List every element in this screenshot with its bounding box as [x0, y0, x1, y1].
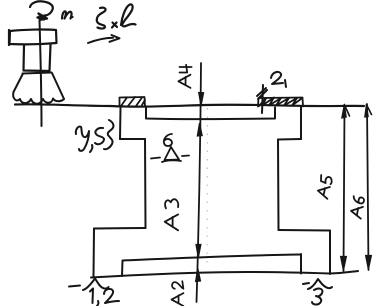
label Sh with arrow: [97, 4, 136, 28]
wire: left step: [120, 138, 145, 140]
wire: left foot outer edge: [93, 229, 96, 278]
arrowhead up at recess line: [197, 123, 202, 136]
wire: bottom-left step: [94, 227, 146, 230]
label A5 (rotated): [317, 175, 333, 199]
wire: bottom recess right edge: [300, 254, 302, 274]
wire: bottom-right step: [279, 229, 331, 232]
wire: right step: [278, 138, 301, 141]
wire: bottom outer line: [91, 271, 358, 278]
bearing pad left (hatched): [120, 97, 146, 107]
arrowhead down at top line: [199, 93, 204, 107]
wire: right foot outer edge: [329, 231, 331, 275]
label A3 (rotated): [165, 199, 179, 230]
arrowhead up at outer bottom line: [196, 268, 201, 281]
ground line (top slab line): [15, 104, 364, 106]
A6 arrow up: [365, 105, 368, 118]
label A6 (rotated): [350, 196, 364, 219]
wire: bottom recess inner line: [122, 255, 301, 277]
A5 arrow up: [342, 105, 346, 119]
break mark and label 1,2: [69, 279, 119, 306]
break mark and label 3: [303, 279, 332, 305]
dimension line A5: [344, 107, 345, 271]
label 4,5 with pointer bracket: [76, 120, 114, 152]
faint dotted centerline: [206, 108, 209, 265]
wire: web left edge: [144, 139, 147, 228]
arrowhead down at inner bottom line: [196, 245, 201, 258]
label A2 (rotated): [172, 281, 184, 306]
dimension line A4/A3/A2 (main vertical): [197, 63, 202, 302]
column centerline: [40, 20, 42, 126]
column sketch: footing with scalloped base: [13, 73, 64, 104]
bearing pad right (scribble hatched): [258, 98, 303, 107]
label 21 with leader tick: [257, 72, 286, 113]
dimension line A6: [367, 104, 369, 270]
arrow under Sh: [88, 35, 120, 43]
spot-level symbol with label 6: [151, 134, 189, 162]
wire: left flange outer edge: [119, 108, 122, 139]
wire: web right edge: [277, 140, 280, 231]
A6 arrow down: [366, 256, 372, 270]
load label Pn with arrow: [30, 1, 73, 20]
wire: right flange outer edge: [300, 107, 302, 139]
label A4 (rotated): [178, 65, 191, 88]
column sketch: column body: [24, 45, 51, 72]
column sketch: cap beam: [9, 29, 57, 45]
wire: recess in top face: [146, 107, 275, 119]
A5 arrow down: [341, 257, 347, 271]
